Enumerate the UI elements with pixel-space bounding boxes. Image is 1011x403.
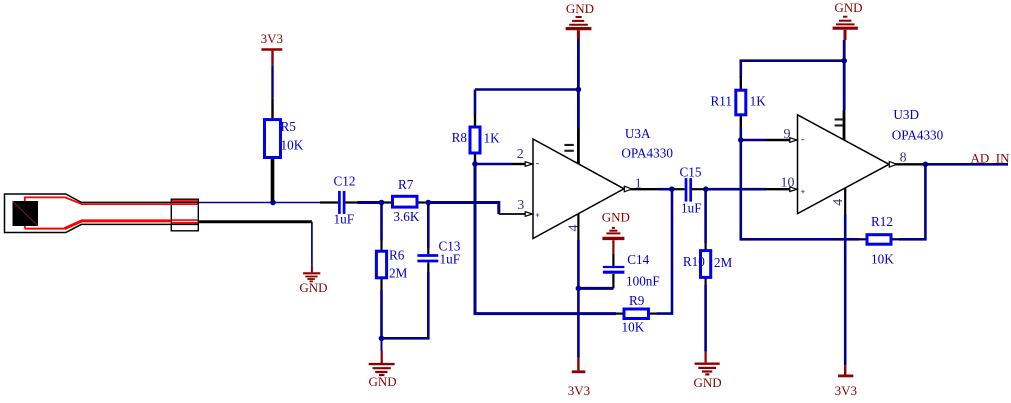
svg-text:1: 1 [635,176,642,191]
svg-text:4: 4 [567,225,582,232]
svg-text:R7: R7 [398,177,414,192]
svg-text:3: 3 [517,198,524,213]
svg-text:R6: R6 [389,247,405,262]
svg-text:C15: C15 [680,164,702,179]
svg-text:3V3: 3V3 [261,31,283,46]
svg-text:OPA4330: OPA4330 [621,146,673,161]
svg-text:R8: R8 [452,130,468,145]
svg-text:10: 10 [781,176,795,191]
svg-text:2M: 2M [714,255,733,270]
svg-text:R9: R9 [629,293,645,308]
svg-text:R5: R5 [281,119,297,134]
svg-text:C14: C14 [627,252,649,267]
svg-text:1uF: 1uF [334,211,355,226]
svg-text:GND: GND [369,374,397,389]
svg-text:1uF: 1uF [440,251,461,266]
svg-text:1K: 1K [750,93,767,108]
svg-text:U3A: U3A [625,126,651,141]
svg-text:GND: GND [566,1,594,16]
svg-text:GND: GND [694,375,722,390]
svg-text:OPA4330: OPA4330 [892,128,944,143]
svg-text:100nF: 100nF [626,273,660,288]
svg-text:10K: 10K [871,251,894,266]
svg-text:U3D: U3D [893,107,919,122]
svg-text:AD_IN: AD_IN [971,150,1011,165]
svg-text:C12: C12 [334,174,356,189]
svg-text:4: 4 [831,199,846,206]
svg-text:GND: GND [299,280,327,295]
svg-text:R11: R11 [711,93,733,108]
svg-text:10K: 10K [281,138,304,153]
svg-text:1uF: 1uF [681,201,702,216]
svg-text:2: 2 [517,147,524,162]
svg-text:GND: GND [602,210,630,225]
svg-text:2M: 2M [389,266,408,281]
svg-text:8: 8 [900,151,907,166]
svg-text:1K: 1K [484,130,501,145]
svg-text:R10: R10 [683,254,705,269]
svg-text:3V3: 3V3 [835,383,857,398]
svg-text:10K: 10K [622,320,645,335]
svg-text:GND: GND [834,0,862,15]
svg-text:3V3: 3V3 [568,383,590,398]
svg-text:9: 9 [784,127,791,142]
svg-text:R12: R12 [871,214,893,229]
svg-text:3.6K: 3.6K [393,209,419,224]
